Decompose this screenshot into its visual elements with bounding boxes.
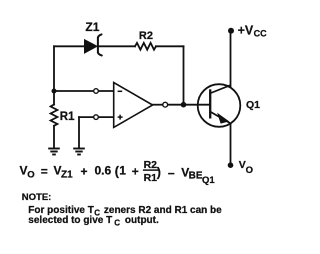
svg-text:0.6: 0.6 xyxy=(95,164,112,178)
svg-text:O: O xyxy=(246,165,253,176)
svg-text:CC: CC xyxy=(254,28,267,38)
svg-text:C: C xyxy=(114,218,120,227)
svg-text:): ) xyxy=(157,165,161,179)
svg-text:selected to give T: selected to give T xyxy=(28,215,112,226)
svg-text:=: = xyxy=(41,165,48,179)
svg-text:O: O xyxy=(27,170,34,181)
svg-text:+: + xyxy=(81,164,88,178)
svg-text:Q1: Q1 xyxy=(246,99,260,111)
svg-text:R2: R2 xyxy=(144,159,158,171)
svg-text:NOTE:: NOTE: xyxy=(22,192,52,203)
svg-text:BE: BE xyxy=(189,171,203,182)
svg-text:output.: output. xyxy=(125,215,159,226)
svg-text:+V: +V xyxy=(238,23,254,37)
svg-text:Q1: Q1 xyxy=(202,175,215,186)
svg-text:+: + xyxy=(132,164,139,178)
svg-text:1: 1 xyxy=(119,164,126,178)
svg-text:R1: R1 xyxy=(144,172,158,184)
svg-text:zeners R2 and R1 can be: zeners R2 and R1 can be xyxy=(104,205,222,216)
svg-text:R2: R2 xyxy=(139,30,153,42)
svg-text:Z1: Z1 xyxy=(85,20,99,34)
svg-text:−: − xyxy=(168,167,175,181)
svg-text:Z1: Z1 xyxy=(61,170,73,181)
svg-text:R1: R1 xyxy=(60,111,75,123)
